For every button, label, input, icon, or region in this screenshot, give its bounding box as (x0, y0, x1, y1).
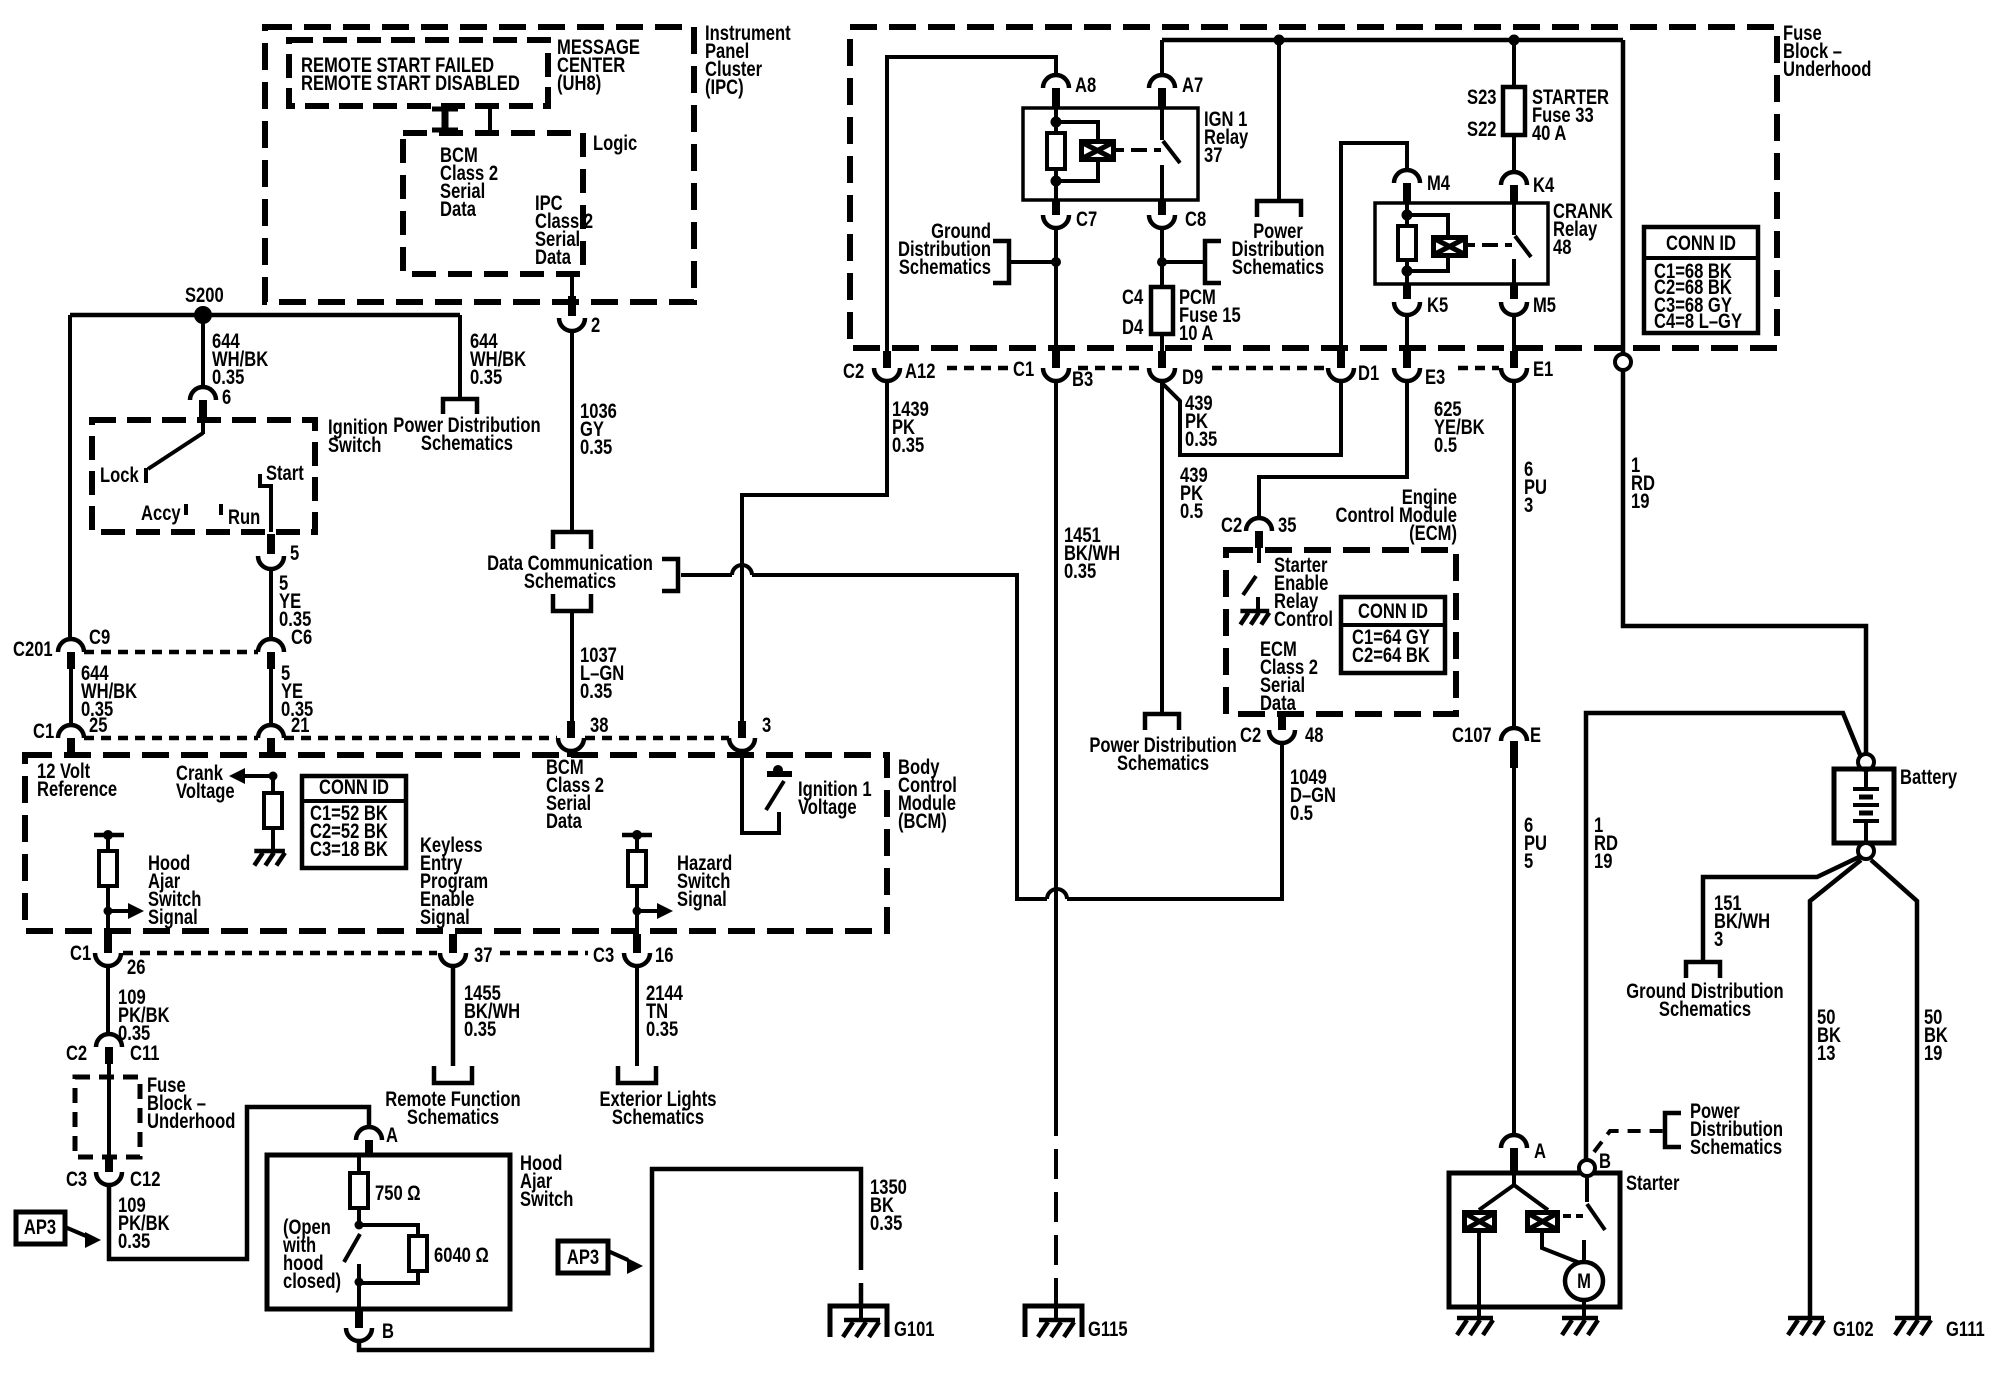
svg-text:G101: G101 (894, 1318, 935, 1341)
svg-text:48: 48 (1553, 236, 1571, 259)
pin label 25 (89, 714, 107, 737)
svg-text:G111: G111 (1946, 1318, 1985, 1341)
svg-text:0.35: 0.35 (580, 436, 612, 459)
svg-text:C4: C4 (1122, 286, 1144, 309)
svg-text:0.5: 0.5 (1434, 434, 1457, 457)
pin label E1 (1533, 358, 1553, 381)
svg-text:C3: C3 (593, 944, 614, 967)
svg-text:REMOTE START DISABLED: REMOTE START DISABLED (301, 72, 520, 95)
ground G102 (1788, 1318, 1824, 1335)
wire resistor to switch junction (355, 1208, 364, 1230)
label Lock (100, 464, 139, 487)
engine control module ECM dashed box (1226, 550, 1456, 714)
pin label A8 (1075, 74, 1096, 97)
svg-text:Data: Data (546, 810, 582, 833)
splice bus to starter fuse (1509, 35, 1520, 46)
pin label 6 (222, 386, 231, 409)
pin label M4 (1427, 172, 1450, 195)
connector C2/C11 (96, 1034, 122, 1064)
pin label A (386, 1124, 398, 1147)
wire label 439 PK 0.35 (1185, 392, 1217, 451)
pin label 2 (591, 314, 600, 337)
ground G101 (830, 1306, 887, 1337)
connector row fuse block dashed line (947, 366, 1008, 371)
svg-text:(UH8): (UH8) (557, 72, 601, 95)
svg-text:S23: S23 (1467, 86, 1496, 109)
connector pin C1/B3 (1043, 351, 1069, 381)
svg-text:K5: K5 (1427, 294, 1448, 317)
svg-text:C3=18 BK: C3=18 BK (310, 838, 388, 861)
svg-text:0.35: 0.35 (892, 434, 924, 457)
wire 439 PK 0.5 from D9 (1160, 381, 1164, 712)
label PCM Fuse 15 10A (1179, 286, 1241, 345)
svg-text:(BCM): (BCM) (898, 810, 947, 833)
label G101 (894, 1318, 935, 1341)
wire label 1049 D-GN 0.5 (1290, 766, 1336, 825)
svg-text:E: E (1530, 724, 1541, 747)
ground G111 (1895, 1318, 1931, 1335)
svg-text:26: 26 (127, 956, 145, 979)
wire label 644 WH/BK 0.35 (right) (470, 330, 526, 389)
CONN ID table fuse block (1644, 227, 1758, 334)
svg-text:0.5: 0.5 (1290, 802, 1313, 825)
svg-text:Schematics: Schematics (1659, 998, 1751, 1021)
pin labels C3 C12 (66, 1168, 160, 1191)
svg-text:S22: S22 (1467, 118, 1496, 141)
resistor 6040 ohm (409, 1236, 427, 1271)
svg-text:AP3: AP3 (24, 1216, 56, 1239)
wire 5 YE 0.35 upper (269, 569, 273, 639)
svg-text:Battery: Battery (1900, 766, 1958, 789)
label Keyless Entry Program Enable Signal (420, 834, 488, 929)
wire motor to ground (1582, 1300, 1586, 1318)
wire 21 to crank resistor (269, 772, 278, 794)
pin label C7 (1076, 208, 1097, 231)
label 12 Volt Reference (37, 760, 117, 801)
wire starter fuse to K4 (1512, 135, 1516, 172)
svg-text:Schematics: Schematics (407, 1106, 499, 1129)
hood ajar switch box (267, 1155, 510, 1309)
label 6040 ohm (434, 1244, 489, 1267)
svg-text:B3: B3 (1072, 368, 1093, 391)
label BCM Class 2 Serial Data (IPC side) (440, 144, 498, 221)
wire data link message center to logic (left) (432, 106, 458, 133)
svg-text:B: B (1599, 1150, 1611, 1173)
wire class 2 serial data from bracket to ECM pin 48 (681, 573, 732, 577)
svg-text:(IPC): (IPC) (705, 76, 744, 99)
wire label 625 YE/BK 0.5 (1434, 398, 1485, 457)
off-page bracket power distribution (439) (1145, 714, 1179, 730)
wire 109 PK/BK upper (106, 966, 110, 1034)
svg-text:Underhood: Underhood (147, 1110, 235, 1133)
label Power Distribution Schematics (fuse block) (1231, 220, 1324, 279)
svg-text:C4=8 L–GY: C4=8 L–GY (1654, 310, 1742, 333)
off-page bracket exterior lights (618, 1066, 656, 1083)
wire stub pin 38 into BCM (567, 751, 575, 757)
wire 1350 BK from pin B (359, 1169, 861, 1350)
svg-text:3: 3 (1524, 494, 1533, 517)
label G111 (1946, 1318, 1985, 1341)
connector BCM pin C3 16 (624, 934, 650, 966)
pin label C8 (1185, 208, 1206, 231)
connector pin D9 (1149, 351, 1175, 381)
connector starter pin A (1501, 1135, 1527, 1173)
wire 1 RD 19 to battery (1623, 370, 1866, 754)
connector IGN1 relay pin C8 (1149, 200, 1175, 228)
wire bus to battery terminal (1621, 40, 1626, 354)
pin label B (382, 1320, 394, 1343)
svg-text:CONN ID: CONN ID (1358, 600, 1428, 623)
connector C107 pin E (1501, 728, 1527, 768)
ignition switch Start contact and wire (260, 474, 271, 532)
starter motor M (1565, 1262, 1603, 1300)
connector pin 2 of IPC (559, 274, 585, 331)
pin label D9 (1182, 366, 1203, 389)
label Run with contact tick (221, 504, 260, 530)
svg-text:40 A: 40 A (1532, 122, 1567, 145)
svg-text:(ECM): (ECM) (1409, 522, 1457, 545)
svg-text:C2=64 BK: C2=64 BK (1352, 644, 1430, 667)
pin labels C3 16 (593, 944, 673, 967)
wire 1037 L-GN 0.35 (570, 611, 574, 725)
ignition 1 voltage switch in BCM (742, 755, 792, 833)
svg-text:C1: C1 (70, 942, 91, 965)
off-page bracket bottom Data Communication (553, 594, 591, 611)
svg-text:Schematics: Schematics (1232, 256, 1324, 279)
wire 1455 BK/WH (451, 966, 456, 1066)
wire 6 PU 5 to starter pin A (1512, 758, 1516, 1135)
wire label 644 WH/BK 0.35 (center) (212, 330, 268, 389)
off-page bracket top Data Communication (553, 532, 591, 549)
svg-text:E3: E3 (1425, 366, 1445, 389)
wire label 5 YE 0.35 (upper) (279, 572, 311, 631)
connector crank relay pin K5 (1394, 284, 1420, 315)
pin labels C1 B3 (1013, 358, 1093, 391)
wire label 2144 TN 0.35 (646, 982, 683, 1041)
wire PCM fuse to pin D9 (1160, 334, 1164, 355)
wire 644 WH/BK bus from S200 (70, 313, 460, 318)
off-page bracket ground distribution (151) (1686, 962, 1720, 978)
wire label 1 RD 19 (lower) (1594, 814, 1618, 873)
svg-text:48: 48 (1305, 724, 1323, 747)
wire 151 BK/WH from battery negative (1703, 857, 1859, 962)
wire data link message center to logic (right) (488, 106, 492, 133)
svg-text:C3: C3 (66, 1168, 87, 1191)
connector ECM pin C2/48 (1269, 714, 1295, 743)
svg-text:Signal: Signal (677, 888, 727, 911)
connector crank relay pin K4 (1501, 172, 1527, 203)
resistor crank voltage pull-up (264, 793, 282, 828)
label IGN 1 Relay 37 (1204, 108, 1249, 167)
connector C201 dashed line (84, 650, 258, 655)
ignition switch dashed box (92, 420, 315, 532)
wire A12 to IGN1 relay pin A8 (887, 57, 1056, 355)
label G102 (1833, 1318, 1874, 1341)
svg-text:closed): closed) (283, 1270, 341, 1293)
svg-text:Switch: Switch (328, 434, 381, 457)
svg-text:M: M (1577, 1270, 1591, 1293)
crank voltage arrow (229, 768, 273, 784)
label Hood Ajar Switch Signal (148, 852, 201, 929)
label S200 (185, 284, 224, 307)
label CRANK Relay 48 (1553, 200, 1613, 259)
pin labels C2 C11 (66, 1042, 160, 1065)
wire C7 to pin B3 (1054, 228, 1058, 355)
svg-text:2: 2 (591, 314, 600, 337)
connector hood ajar pin B (346, 1309, 372, 1341)
CONN ID table ECM (1341, 597, 1445, 673)
starter switch (1563, 1176, 1605, 1262)
svg-text:C1: C1 (33, 720, 54, 743)
wire through fuse block (107, 1064, 111, 1155)
wire 2144 TN (635, 966, 639, 1066)
label Fuse Block - Underhood (1783, 22, 1871, 81)
svg-text:C107: C107 (1452, 724, 1492, 747)
starter box (1449, 1173, 1620, 1307)
pin labels C1 26 (70, 942, 145, 979)
fuse block underhood small dashed box (75, 1077, 140, 1157)
dashed wire to power distribution (starter B) (1594, 1131, 1665, 1152)
label Body Control Module (BCM) (898, 756, 957, 833)
label Crank Voltage (176, 762, 235, 803)
svg-text:Schematics: Schematics (612, 1106, 704, 1129)
wire label 1350 BK 0.35 (870, 1176, 907, 1235)
wire pin A into switch (359, 1156, 369, 1173)
connector pin D1 (1328, 351, 1354, 381)
wire 439 PK 0.35 from D9 to D1 (1162, 381, 1341, 455)
svg-text:D1: D1 (1358, 362, 1379, 385)
hood ajar switch signal branch in BCM (94, 830, 144, 934)
label Starter (1626, 1172, 1680, 1195)
svg-text:0.5: 0.5 (1180, 500, 1203, 523)
svg-text:S200: S200 (185, 284, 224, 307)
svg-text:Signal: Signal (148, 906, 198, 929)
connector pin E1 (1501, 351, 1527, 381)
bracket power distribution (bus) (1257, 201, 1301, 217)
svg-text:M4: M4 (1427, 172, 1450, 195)
svg-text:6040 Ω: 6040 Ω (434, 1244, 489, 1267)
CRANK relay 48 (1375, 203, 1548, 284)
ground G115 (1025, 1306, 1082, 1337)
label Power Distribution Schematics (644) (393, 414, 540, 455)
svg-text:C2: C2 (843, 360, 864, 383)
wire resistor to ground (BCM) (271, 828, 275, 851)
svg-text:750 Ω: 750 Ω (375, 1182, 421, 1205)
svg-text:A7: A7 (1182, 74, 1203, 97)
wire 644 WH/BK left branch to C201 (68, 315, 72, 639)
svg-text:C11: C11 (130, 1042, 159, 1065)
svg-text:Voltage: Voltage (176, 780, 235, 803)
connector IGN1 relay pin A7 (1149, 75, 1175, 108)
svg-text:A12: A12 (905, 360, 935, 383)
ignition switch blade to Lock (148, 433, 203, 469)
svg-text:Schematics: Schematics (1690, 1136, 1782, 1159)
wire label 6 PU 5 (1524, 814, 1547, 873)
pin labels S23 S22 (1467, 86, 1496, 141)
bracket power distribution (starter B) (1665, 1113, 1681, 1147)
off-page bracket power distribution (644) (443, 399, 477, 414)
label Ignition 1 Voltage (798, 778, 872, 819)
svg-text:37: 37 (474, 944, 492, 967)
pin label 3 (762, 714, 771, 737)
wire M5 to pin E1 (1512, 315, 1516, 355)
svg-text:0.35: 0.35 (464, 1018, 496, 1041)
battery negative terminal circle (1858, 843, 1874, 859)
wire 1036 GY 0.35 (570, 331, 574, 532)
svg-text:Voltage: Voltage (798, 796, 857, 819)
pin label C6 (291, 626, 312, 649)
wire label 1 RD 19 (upper) (1631, 454, 1655, 513)
wire 6 PU 3 from E1 (1512, 381, 1516, 728)
reference tag AP3 left (16, 1212, 65, 1244)
svg-text:5: 5 (290, 542, 299, 565)
wire to pin B (357, 1283, 361, 1309)
svg-text:C2: C2 (66, 1042, 87, 1065)
wire 1350 BK dashed to G101 (859, 1240, 864, 1305)
label Power Distribution Schematics (439) (1089, 734, 1236, 775)
svg-text:6: 6 (222, 386, 231, 409)
wire label 1451 BK/WH 0.35 (1064, 524, 1120, 583)
starter solenoid windings (1462, 1173, 1580, 1318)
svg-text:C2: C2 (1221, 514, 1242, 537)
svg-text:19: 19 (1594, 850, 1612, 873)
svg-text:19: 19 (1924, 1042, 1942, 1065)
body control module BCM dashed box (25, 755, 887, 931)
svg-text:3: 3 (762, 714, 771, 737)
label Hazard Switch Signal (677, 852, 732, 911)
svg-text:Data: Data (535, 246, 571, 269)
wire 50 BK 19 to G111 (1871, 860, 1917, 1318)
svg-text:C6: C6 (291, 626, 312, 649)
pin labels C2 A12 (843, 360, 935, 383)
label Start (266, 462, 304, 485)
svg-text:Signal: Signal (420, 906, 470, 929)
label ECM Class 2 Serial Data (1260, 638, 1318, 715)
svg-text:37: 37 (1204, 144, 1222, 167)
svg-text:D4: D4 (1122, 316, 1144, 339)
connector crank relay pin M4 (1394, 170, 1420, 203)
svg-text:C201: C201 (13, 638, 53, 661)
pin label A7 (1182, 74, 1203, 97)
reference tag AP3 right (558, 1241, 608, 1273)
svg-text:3: 3 (1714, 928, 1723, 951)
wire label 1455 BK/WH 0.35 (464, 982, 520, 1041)
bracket power distribution (C8) (1205, 241, 1221, 283)
svg-text:C9: C9 (89, 626, 110, 649)
wire 1 RD 19 to starter B (1586, 713, 1861, 1160)
wire label 5 YE 0.35 (lower) (281, 662, 313, 721)
wire 5 YE 0.35 to BCM pin 21 (269, 669, 273, 725)
svg-text:M5: M5 (1533, 294, 1556, 317)
wire bus to starter fuse (1512, 40, 1516, 87)
svg-text:C2: C2 (1240, 724, 1261, 747)
connector IGN1 relay pin A8 (1043, 75, 1069, 108)
pin label M5 (1533, 294, 1556, 317)
crank relay feed wire D1 to M4 (1341, 143, 1407, 355)
splice S200 (194, 306, 212, 324)
fuse STARTER Fuse 33 40A (1503, 87, 1525, 135)
connector C201 pin C6 (258, 639, 284, 669)
terminal circle fuse block battery feed (1615, 354, 1631, 370)
svg-text:25: 25 (89, 714, 107, 737)
svg-text:10 A: 10 A (1179, 322, 1214, 345)
wire C7 to ground distribution (1009, 257, 1061, 267)
label STARTER Fuse 33 40A (1532, 86, 1609, 145)
label Instrument Panel Cluster (IPC) (705, 22, 791, 99)
wire 50 BK 13 to G102 (1810, 860, 1861, 1318)
connector BCM pin 3 (729, 721, 755, 751)
arrow AP3 right (608, 1251, 643, 1274)
svg-text:AP3: AP3 (567, 1246, 599, 1269)
wire label 1439 PK 0.35 (892, 398, 929, 457)
svg-text:Schematics: Schematics (899, 256, 991, 279)
svg-text:Starter: Starter (1626, 1172, 1680, 1195)
connector crank relay pin M5 (1501, 284, 1527, 315)
svg-text:0.35: 0.35 (580, 680, 612, 703)
label Starter Enable Relay Control (1274, 554, 1333, 631)
wire label 50 BK 19 (1924, 1006, 1948, 1065)
svg-text:Switch: Switch (520, 1188, 573, 1211)
wire 644 WH/BK to ignition switch (201, 315, 205, 387)
splice bus to power distribution (1274, 35, 1285, 46)
connector BCM pin 21 (258, 725, 284, 755)
wire label 439 PK 0.5 (1180, 464, 1208, 523)
connector pin 38 of BCM (558, 721, 584, 751)
wire label 109 PK/BK 0.35 (lower) (118, 1194, 170, 1253)
label G115 (1088, 1318, 1128, 1341)
fuse PCM Fuse 15 10A (1151, 287, 1173, 334)
svg-text:38: 38 (590, 714, 608, 737)
connector BCM pin 37 (440, 934, 466, 966)
pin label B (1599, 1150, 1611, 1173)
wire junction to 6040 resistor (359, 1225, 418, 1236)
ignition switch Lock contact (144, 468, 148, 483)
pin labels C2 35 (1221, 514, 1296, 537)
svg-text:G115: G115 (1088, 1318, 1128, 1341)
message center display dashed box (289, 40, 548, 106)
wire battery positive bus in fuse block (1162, 38, 1623, 43)
label Ground Distribution Schematics (C7) (898, 220, 991, 279)
connector C3/C12 (96, 1155, 122, 1185)
svg-text:Reference: Reference (37, 778, 117, 801)
starter terminal B circle (1579, 1160, 1595, 1176)
connector pin 5 ignition switch (258, 534, 284, 569)
label C1 (BCM) (33, 720, 54, 743)
svg-text:16: 16 (655, 944, 673, 967)
label Ground Distribution Schematics (151) (1626, 980, 1783, 1021)
label C201 (13, 638, 53, 661)
svg-text:13: 13 (1817, 1042, 1835, 1065)
svg-text:K4: K4 (1533, 174, 1555, 197)
svg-text:Lock: Lock (100, 464, 139, 487)
svg-text:A: A (1534, 1140, 1546, 1163)
stub pin 3 into BCM (738, 751, 746, 757)
wire 644 WH/BK to BCM pin 25 (69, 669, 73, 725)
wire label 6 PU 3 (1524, 458, 1547, 517)
pin labels C4 D4 (1122, 286, 1144, 339)
label Engine Control Module (ECM) (1335, 486, 1457, 545)
wire C8 to power distribution (1157, 257, 1205, 267)
wire 625 YE/BK from E3 to ECM (1259, 381, 1407, 518)
wire 1451 BK/WH dashed to G115 (1054, 1106, 1058, 1304)
connector C201 pin C9 (58, 639, 84, 669)
pin label E3 (1425, 366, 1445, 389)
battery positive terminal circle (1858, 754, 1874, 770)
label Data Communication Schematics (487, 552, 653, 593)
pin label A (1534, 1140, 1546, 1163)
label Open with hood closed (282, 1216, 341, 1293)
wire 1451 BK/WH from B3 (1054, 381, 1058, 1106)
